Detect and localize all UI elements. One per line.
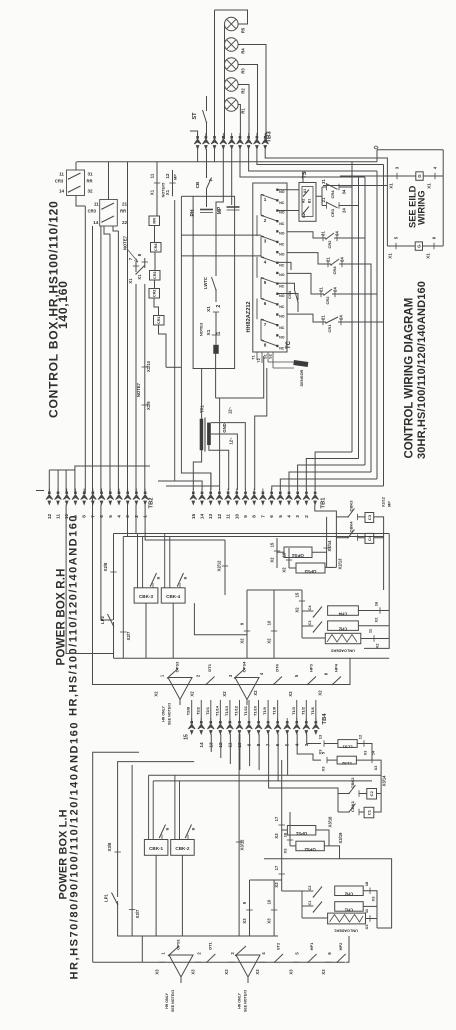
pin X1-1 NOTE3 [212,334,220,336]
connector G2 [415,242,422,250]
wire lead T1/2 to TB4 [305,700,307,722]
relay contact CR3 21/24 [321,197,359,217]
relay coil CR2 [149,289,160,299]
contactor coil CBK-4 [161,534,187,604]
wire LLS2 right lead [356,760,381,793]
wire stub from top horizontal [376,150,378,162]
wire OPS4 left lead [277,551,284,553]
svg-text:11: 11 [364,908,369,913]
svg-text:X3/19: X3/19 [338,832,343,844]
pin X3/8 [114,851,120,853]
svg-text:CBK2: CBK2 [350,777,355,789]
svg-text:HR ONLY: HR ONLY [165,992,169,1008]
wire CBK-2 down [181,855,183,936]
svg-text:LP1: LP1 [104,893,109,901]
svg-text:RR: RR [86,179,92,184]
svg-text:X2: X2 [267,638,272,644]
wire TB2-6 down [101,505,114,621]
svg-text:1: 1 [216,331,222,334]
svg-text:C4: C4 [308,605,312,611]
svg-text:15: 15 [191,514,196,520]
terminal TB1-6 [268,489,275,505]
svg-text:HH82AZ212: HH82AZ212 [246,301,252,332]
contactor coil CBK-2 [171,775,196,855]
svg-text:RR: RR [120,209,126,214]
wire OPS2 left lead [290,845,296,847]
wire LH bus1 [149,774,382,776]
wire CH2 right lead [358,625,389,627]
terminal TB2-8 [81,489,88,505]
wire TB1-13 feed [181,473,211,490]
wire staircase s4 [289,472,371,490]
wire lead T1/11 to TB4 [248,700,250,722]
wire CBK-1 down [155,855,157,936]
wire LH mid horizontal [282,890,302,892]
svg-text:14: 14 [200,514,205,520]
box top edge extension [181,195,193,197]
svg-text:T1/9: T1/9 [262,706,267,715]
terminal TB2-6 [98,489,105,505]
wire TB3-4 to LWTC [216,149,223,276]
svg-text:B: B [166,827,170,830]
svg-text:CBK-3: CBK-3 [139,594,153,599]
terminal TB4-11 [227,718,234,734]
wire lead T1/6 to TB4 [315,700,317,722]
wire RH mid horizontal [247,589,302,591]
wire TR1 primary bottom to TB1-15 [193,450,201,490]
wire lead T1/13 to TB4 [229,700,231,722]
svg-text:X2: X2 [282,567,287,573]
wire TB3-8 to right bus [257,149,384,165]
svg-text:11: 11 [94,202,99,207]
svg-text:T1/11: T1/11 [243,705,248,716]
wire TB2-3 down to bus2 [127,505,129,537]
wire box bottom to TB1-12 [219,398,221,490]
svg-text:X3: X3 [374,766,378,771]
svg-text:X3: X3 [155,969,160,975]
wire TB4-10b down [239,734,241,770]
wire sensor loop to TB1-9 [255,368,267,490]
wire to TB2-4 [117,231,119,494]
pressure switch OPS3 triangle [168,678,192,700]
pressure switch OPS1 box [287,826,315,837]
liquid line solenoid LLS2 [337,756,356,766]
svg-text:11: 11 [368,628,373,633]
wire C1 right [359,794,381,813]
auxiliary contact CBK2 [338,793,349,795]
svg-text:NO: NO [279,232,285,236]
wire bus b6 [344,321,384,323]
wire OPS4 right lead X2/14 [312,517,327,568]
svg-text:T1/2: T1/2 [300,706,305,715]
wire HH cell5 NC lead CS4 [279,283,295,288]
svg-text:NO: NO [279,190,285,194]
wire TB4-9 down [249,734,251,766]
svg-text:4: 4 [261,952,266,955]
wire TR1 GND lead [211,434,238,490]
svg-text:X3/7: X3/7 [135,909,140,918]
wire TB3-6 to right bus [240,149,365,177]
svg-text:14: 14 [59,189,65,194]
wire TB2-1 down to X2/12 [145,505,225,541]
svg-text:4: 4 [116,515,121,518]
connector G1 [416,172,423,181]
wire TB3-1 stub [190,131,198,139]
terminal TB3-5 [228,133,235,149]
wire HH cell2 NO lead to TS [279,210,300,212]
svg-text:9: 9 [243,515,248,518]
svg-text:NOTE7: NOTE7 [123,235,128,250]
pin X3-6 [325,961,331,963]
contactor aux C3 blade [313,622,322,633]
svg-text:CH2: CH2 [338,626,347,631]
svg-text:X3/12: X3/12 [240,839,245,851]
wire to TB2-7 [93,226,162,685]
pin X3-1 [159,961,165,963]
terminal TB1-x [312,489,319,505]
high pressure switch HP2 [337,954,346,962]
svg-text:R1: R1 [241,108,246,114]
svg-text:17: 17 [274,816,279,821]
wire X2/12 vertical [224,540,226,595]
switch CS4 [295,290,299,302]
svg-text:6: 6 [432,236,437,239]
wire TB3-5 to MP [231,149,233,205]
svg-text:X1: X1 [150,189,155,195]
terminal TB4-10 [236,718,243,734]
wire HH cell6 NO lead [279,294,299,301]
svg-text:10: 10 [234,514,239,520]
svg-text:CR3: CR3 [330,208,335,217]
wire lead T2/1 to TB4 [210,700,212,722]
svg-text:G: G [417,174,422,177]
svg-text:34: 34 [342,189,347,194]
svg-text:T2/B: T2/B [186,707,191,716]
terminal TB4-4 [293,718,300,734]
svg-text:CBK4: CBK4 [349,521,354,533]
wire TB4-11 feed down [277,734,279,781]
transformer TR1 core [204,417,206,451]
svg-text:X2: X2 [222,691,227,697]
contact blades in TS [304,190,310,197]
svg-text:UNLOADER3: UNLOADER3 [331,649,355,653]
svg-text:CBK-4: CBK-4 [166,594,180,599]
svg-text:X2: X2 [270,557,275,563]
svg-text:17: 17 [274,865,279,870]
pin X1-2 [213,311,219,313]
svg-text:15: 15 [184,734,190,740]
terminal TB2-12 [46,489,53,505]
terminal TB1-15 [190,489,197,505]
svg-text:2: 2 [304,515,309,518]
wire CBK-4 right lead [194,603,247,635]
svg-text:16: 16 [374,601,379,606]
svg-text:T1/6: T1/6 [310,706,315,715]
svg-text:HP4: HP4 [334,663,339,672]
svg-text:1: 1 [161,952,166,955]
svg-text:X2: X2 [374,617,379,623]
svg-text:X2/13: X2/13 [338,558,343,570]
svg-text:X1: X1 [388,253,393,259]
svg-text:11: 11 [226,514,231,519]
terminal TB3-6 [237,133,244,149]
svg-text:X2: X2 [154,691,159,697]
svg-text:X3: X3 [321,969,326,975]
wire bus b5 vertical [376,171,378,479]
wire staircase s3 [298,465,365,490]
pressure switch OPS2 triangle [236,955,260,977]
svg-text:X3: X3 [371,896,376,902]
svg-text:NC: NC [279,201,285,205]
svg-text:X2/12: X2/12 [217,560,222,572]
svg-text:TB2: TB2 [149,498,155,509]
svg-text:S2: S2 [269,354,273,359]
svg-text:9: 9 [242,901,247,904]
svg-text:3: 3 [230,952,235,955]
wire HH cell4 NC lead [279,262,292,270]
wire OPS3 right lead X2/13 [325,566,336,568]
wire bus b1 [351,162,353,452]
svg-text:NC: NC [279,284,285,288]
svg-text:OPS3: OPS3 [304,569,316,574]
wire CR3 upper block to TB2-8 [76,196,85,207]
wire TR1 primary top [201,369,203,419]
svg-text:T1: T1 [252,355,256,359]
svg-text:X3: X3 [191,969,196,975]
wire HH to CR2b lead [287,273,318,294]
wire TS right to G2 feed [323,185,387,187]
svg-text:CH1: CH1 [344,907,353,912]
svg-text:T2/1: T2/1 [205,706,210,715]
wire thermistor down [215,354,217,398]
wire LLS1 right lead [357,744,372,761]
svg-text:5: 5 [278,515,283,518]
relay contact block CR3/RR upper [55,162,93,196]
contactor coil CBK-1 [144,775,169,855]
wire TB2-12 feed [48,470,50,494]
svg-text:13: 13 [318,734,323,739]
svg-text:X2/14: X2/14 [327,540,332,552]
wire TR1 secondary top 12~ [211,423,246,490]
wire to TB2-5 [109,234,111,494]
wire X1-12 stub [172,170,174,196]
svg-text:2: 2 [197,952,202,955]
svg-text:6: 6 [99,515,104,518]
svg-text:X3/8: X3/8 [107,842,112,851]
switch LWTC [203,277,217,302]
svg-text:32: 32 [87,189,93,194]
pin X2-2 [194,684,200,686]
svg-text:NOTE7: NOTE7 [136,382,141,397]
svg-text:4: 4 [287,515,292,518]
pin X3-3 [229,961,235,963]
svg-text:15: 15 [270,542,275,547]
contactor aux C2 blade LH [313,887,322,898]
pin X3-5 chain [293,961,299,963]
wire RH bottom bus [114,657,390,659]
module HH82AZ212 [246,183,287,352]
wire TB4-4 down to LLS2 [297,734,321,760]
liquid line solenoid LLS1 [338,740,357,750]
svg-text:2: 2 [264,218,267,223]
wire OPS3 left feed [288,548,290,568]
svg-text:34: 34 [335,231,340,236]
lamp R3 [225,58,239,72]
contact 1 of HH82AZ212 [261,189,285,206]
svg-text:T2: T2 [257,358,261,362]
wire HH cell1 NO lead to TS [279,189,300,191]
crankcase heater CH2 LH [335,886,364,897]
high pressure switch HP3 [308,677,317,685]
svg-text:5: 5 [295,952,300,955]
contact 6 of HH82AZ212 [261,293,285,310]
wire X1-2 down [215,312,217,335]
svg-text:NC: NC [279,326,285,330]
wire TB3-9 to right bus [265,149,387,186]
svg-text:C3: C3 [367,514,372,520]
svg-text:NC: NC [279,264,285,268]
unloader UNLOADER3 [325,633,361,652]
defrost thermostat DT1 [207,954,216,962]
svg-text:140,160: 140,160 [56,280,70,329]
svg-text:X1: X1 [427,183,432,189]
svg-text:UNLOADER1: UNLOADER1 [334,929,358,933]
wire block2 bottom left elbow [104,226,110,234]
wire block2 bottom right elbow [113,226,118,231]
svg-text:8: 8 [137,253,142,256]
svg-text:11: 11 [56,514,61,519]
wire CH1 right lead [363,905,377,907]
outer control module lines [175,196,211,490]
svg-text:CB: CB [195,181,200,188]
svg-text:CBK3: CBK3 [349,500,354,512]
contact 4 of HH82AZ212 [261,251,285,268]
wire RH second vertical X2/7 [122,537,124,659]
wire lead T2/2 to TB4 [200,700,202,722]
svg-text:X1: X1 [137,274,142,280]
wire LH bus2 [153,780,372,782]
svg-text:22: 22 [122,220,128,225]
lamp R5 [225,17,239,31]
svg-text:HR,HS70/80/90/100/110/120/140A: HR,HS70/80/90/100/110/120/140AND160 [69,721,81,980]
wire RH bus1 [114,533,390,535]
svg-text:TB1: TB1 [321,497,327,509]
wire LH chain [93,961,345,963]
transformer TR1 secondary [207,423,211,445]
terminal TB3-7 [245,133,252,149]
svg-text:8: 8 [252,515,257,518]
contactor C3 [365,513,374,523]
svg-text:RR: RR [152,218,157,224]
wire OPS2 vertex stub [247,977,249,983]
svg-text:7: 7 [128,257,133,260]
wire box bottom rail [216,356,264,398]
crankcase heater CH2 [328,621,359,632]
wire bus b2 [358,176,360,459]
svg-text:NC: NC [279,305,285,309]
svg-text:SEE NOTE#3: SEE NOTE#3 [244,990,248,1012]
wire TB4-3 down to LLS1 [307,734,321,744]
svg-text:CBK-2: CBK-2 [175,846,189,851]
contactor C2 [367,789,377,800]
contact X1-7/8 with NOTE7 arrow [123,235,149,283]
svg-text:OPS1: OPS1 [295,831,307,836]
svg-text:GND: GND [222,423,227,432]
connector PH [190,209,213,216]
terminal strip TS outer [299,183,316,222]
svg-text:CR4: CR4 [332,266,337,275]
wire coil CR3-CR2 [154,280,156,289]
crankcase heater CH1 [335,902,364,913]
svg-text:X3/16: X3/16 [328,816,333,828]
svg-text:A2: A2 [302,199,306,204]
svg-text:X3: X3 [321,766,326,772]
wire CBK rows left feed [337,794,339,813]
svg-text:OPS3: OPS3 [175,661,180,672]
svg-text:X2: X2 [190,691,195,697]
svg-text:CBK-1: CBK-1 [149,846,163,851]
terminal TB3-4 [220,133,227,149]
terminal TB1-13 [207,489,214,505]
wire top right horizontal [377,149,443,151]
wire TB4-12 feed down [269,734,338,794]
svg-text:X2: X2 [253,690,258,696]
terminal TB1-14 [199,489,206,505]
terminal TB1-3 [294,489,301,505]
wire RH chain end up [341,658,350,684]
pin X3-4 [259,961,265,963]
wire OPS4 vertex stub [246,700,248,706]
wire G1 row [340,175,443,177]
svg-text:5: 5 [108,515,113,518]
auxiliary contact CBK1 [338,811,349,813]
wire X3-17 vertical upper [281,760,283,859]
svg-text:X1: X1 [206,329,211,335]
circuit breaker CB [195,178,212,208]
svg-text:X1: X1 [165,189,170,195]
svg-text:24: 24 [333,287,338,292]
pin X2-4 [257,684,263,686]
auxiliary contact CBK3 [336,516,348,518]
wire staircase s2 [306,459,358,491]
wire bus b3 [340,237,365,239]
svg-text:SEE NOTE#3: SEE NOTE#3 [171,990,175,1012]
wire TB2 group feed [75,466,150,470]
svg-text:CH4: CH4 [338,611,347,616]
svg-text:13: 13 [282,552,287,557]
svg-text:T1/3: T1/3 [291,706,296,715]
svg-text:X3: X3 [274,882,279,888]
svg-text:NOTE3: NOTE3 [199,322,204,336]
svg-text:7: 7 [90,515,95,518]
terminal TB2-10 [63,489,70,505]
terminal TB4-6 [274,718,281,734]
defrost thermostat DT3 [206,677,215,685]
svg-text:X1/9: X1/9 [146,401,151,410]
high pressure switch HP4 [333,677,342,685]
terminal TB2-11 [55,489,62,505]
terminal TB4-r [312,718,319,734]
svg-text:6: 6 [324,672,329,675]
terminal TB4-7 [265,718,272,734]
wire lamp left bus [214,10,216,139]
svg-text:T1/10: T1/10 [253,706,258,716]
svg-text:15: 15 [295,592,300,597]
wire C4 right [358,537,384,539]
svg-text:X2: X2 [295,607,300,613]
svg-text:6: 6 [264,301,267,306]
svg-text:G: G [416,244,421,247]
